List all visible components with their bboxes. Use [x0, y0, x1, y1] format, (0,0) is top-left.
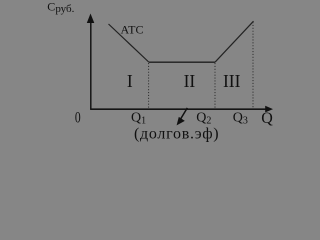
y-axis arrowhead [87, 14, 95, 24]
dotted guide line at Q3 [252, 22, 254, 109]
svg-text:I: I [127, 71, 133, 91]
ATC curve: downslope segment [109, 24, 149, 62]
svg-text:Q3: Q3 [233, 111, 248, 127]
svg-text:АТС: АТС [121, 23, 144, 37]
ATC curve: flat segment [149, 61, 215, 63]
ATC curve: upslope segment [215, 21, 254, 62]
pointer arrow to (долгов.эф) label [180, 108, 187, 120]
pointer arrowhead [177, 117, 185, 126]
dotted guide line at Q1 [148, 63, 150, 109]
x-axis arrowhead [265, 106, 273, 113]
svg-text:Q: Q [261, 110, 273, 127]
svg-text:Сруб.: Сруб. [47, 0, 74, 15]
dotted guide line at Q2 [214, 63, 216, 109]
svg-text:II: II [184, 71, 196, 91]
svg-text:0: 0 [75, 110, 81, 127]
y-axis shaft [90, 21, 92, 110]
svg-text:(долгов.эф): (долгов.эф) [134, 126, 219, 143]
svg-text:Q2: Q2 [196, 111, 211, 127]
x-axis shaft [90, 108, 266, 110]
svg-text:Q1: Q1 [131, 111, 146, 127]
svg-text:III: III [223, 71, 241, 91]
